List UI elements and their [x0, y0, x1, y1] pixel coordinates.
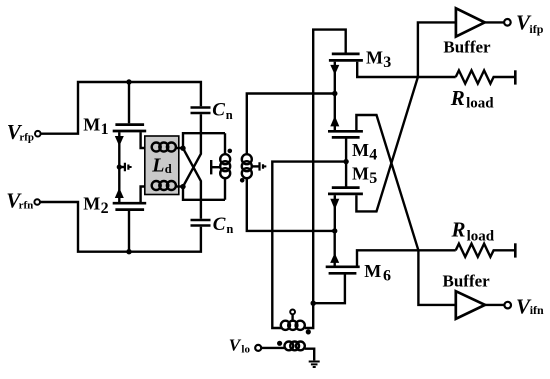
svg-text:C: C — [212, 100, 225, 121]
svg-text:1: 1 — [101, 121, 109, 138]
svg-text:4: 4 — [369, 147, 377, 164]
svg-text:3: 3 — [383, 54, 391, 71]
svg-text:n: n — [226, 222, 233, 236]
svg-text:L: L — [151, 154, 164, 176]
svg-text:M: M — [366, 47, 383, 67]
svg-text:M: M — [364, 261, 381, 281]
svg-text:C: C — [213, 214, 226, 235]
svg-text:n: n — [226, 108, 233, 122]
svg-text:V: V — [229, 335, 242, 354]
svg-text:2: 2 — [101, 200, 109, 217]
svg-text:Buffer: Buffer — [443, 272, 491, 291]
svg-text:M: M — [352, 163, 369, 183]
svg-text:ifp: ifp — [529, 22, 543, 36]
svg-text:load: load — [467, 228, 495, 244]
svg-text:ifn: ifn — [530, 303, 544, 317]
svg-text:R: R — [450, 86, 465, 110]
svg-text:load: load — [466, 95, 494, 111]
svg-text:M: M — [83, 194, 100, 214]
svg-text:rfn: rfn — [19, 199, 34, 211]
svg-text:d: d — [165, 162, 172, 176]
svg-text:lo: lo — [241, 343, 250, 355]
svg-text:Buffer: Buffer — [443, 38, 491, 57]
svg-text:5: 5 — [369, 170, 377, 187]
svg-text:M: M — [352, 140, 369, 160]
svg-text:M: M — [83, 115, 100, 135]
svg-text:R: R — [451, 217, 466, 241]
svg-text:rfp: rfp — [19, 132, 34, 144]
svg-text:6: 6 — [383, 268, 391, 285]
